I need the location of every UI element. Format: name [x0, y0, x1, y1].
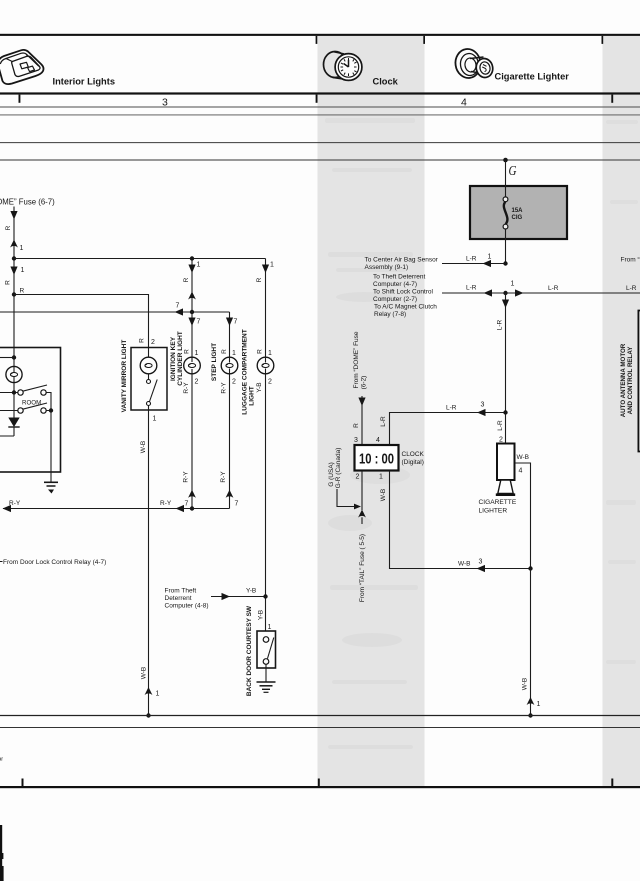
- svg-text:Interior Lights: Interior Lights: [53, 77, 116, 87]
- label BACK DOOR COURTESY SW: [246, 605, 253, 696]
- label VANITY MIRROR LIGHT: [121, 340, 128, 413]
- svg-text:Deterrent: Deterrent: [165, 595, 192, 602]
- svg-text:VANITY MIRROR LIGHT: VANITY MIRROR LIGHT: [121, 340, 128, 413]
- label CIGARETTE LIGHTER: [479, 499, 517, 515]
- svg-text:W-B: W-B: [380, 489, 387, 502]
- svg-text:G: G: [509, 164, 517, 179]
- svg-text:7: 7: [197, 319, 201, 326]
- wire ignition light: [191, 259, 193, 358]
- bus wire y107: [0, 106, 640, 108]
- svg-text:1: 1: [270, 262, 274, 269]
- svg-text:1: 1: [21, 267, 25, 274]
- pin labels R 1: [221, 349, 236, 357]
- junction: [12, 256, 16, 260]
- tiny cut label: [0, 757, 3, 763]
- bus wire G y160: [0, 159, 640, 161]
- svg-text:L-R: L-R: [497, 319, 504, 330]
- label Interior Lights: [53, 77, 116, 87]
- label Cigarette Lighter: [495, 72, 570, 82]
- clock box: [355, 445, 399, 471]
- junction: [190, 506, 194, 510]
- clock icon: [324, 52, 362, 81]
- svg-text:LUGGAGE COMPARTMENT: LUGGAGE COMPARTMENT: [242, 329, 249, 414]
- label DOME fuse: [0, 198, 55, 207]
- connector 7: [185, 490, 196, 508]
- svg-text:Computer (4-8): Computer (4-8): [165, 603, 209, 610]
- arrow down 1: [188, 262, 200, 274]
- svg-text:From Door Lock Control Relay (: From Door Lock Control Relay (4-7): [3, 559, 106, 566]
- label R: [20, 288, 25, 295]
- svg-text:(6-2): (6-2): [361, 376, 368, 390]
- svg-text:“DOME” Fuse (6-7): “DOME” Fuse (6-7): [0, 198, 55, 207]
- label IGNITION KEY CYLINDER LIGHT: [170, 331, 184, 386]
- svg-text:G-R (Canada): G-R (Canada): [335, 448, 342, 489]
- junction: [190, 310, 194, 314]
- label R-Y: [183, 471, 190, 483]
- svg-text:To Shift Lock Control: To Shift Lock Control: [373, 289, 434, 296]
- svg-text:R-Y: R-Y: [183, 471, 190, 483]
- section number 3: [162, 97, 168, 109]
- svg-text:Computer (4-7): Computer (4-7): [373, 281, 417, 288]
- svg-text:1: 1: [153, 416, 157, 423]
- svg-text:1: 1: [232, 350, 236, 357]
- ignition key bulb: [184, 357, 201, 374]
- wire R from DOME fuse: [13, 207, 15, 348]
- svg-text:1: 1: [379, 474, 383, 481]
- svg-text:To Center Air Bag Sensor: To Center Air Bag Sensor: [365, 257, 439, 264]
- luggage bulb: [257, 357, 274, 374]
- label From Theft Deterrent Computer: [165, 588, 209, 610]
- svg-text:CLOCK: CLOCK: [402, 451, 425, 458]
- label W-B connector 1 to bottom bus: [141, 667, 160, 718]
- label To Center Air Bag Sensor: [365, 257, 439, 272]
- svg-text:Cigarette Lighter: Cigarette Lighter: [495, 72, 570, 82]
- svg-text:From Theft: From Theft: [165, 588, 197, 595]
- vanity bulb: [140, 348, 157, 380]
- label From Door Lock Control Relay: [0, 559, 106, 566]
- svg-text:R-Y: R-Y: [221, 382, 228, 394]
- svg-text:1: 1: [197, 262, 201, 269]
- wire clock pin 1 W-B: [380, 471, 531, 572]
- svg-text:7: 7: [235, 501, 239, 508]
- wire L-R to right page: [506, 281, 640, 297]
- svg-text:CIG: CIG: [512, 215, 523, 221]
- svg-text:1: 1: [268, 624, 272, 631]
- diode: [0, 418, 20, 437]
- label From TAIL Fuse: [359, 534, 366, 602]
- arrow down 1: [262, 262, 274, 274]
- label To Theft Deterrent etc: [373, 274, 437, 319]
- arrow left 7: [175, 303, 184, 316]
- svg-text:R: R: [256, 277, 263, 282]
- step light bulb: [221, 357, 238, 374]
- wire from theft deterrent: [211, 588, 268, 601]
- svg-text:1: 1: [156, 691, 160, 698]
- label AUTO ANTENNA MOTOR AND CONTROL RELAY: [620, 343, 634, 417]
- pin labels R 2: [139, 338, 156, 346]
- junction: [12, 292, 16, 296]
- label R: [5, 280, 12, 285]
- pin 1 and W-B wire down: [140, 406, 157, 716]
- fuse box 15A CIG: [470, 186, 567, 239]
- wire L-R down to lighter: [497, 293, 510, 444]
- connector 7: [226, 490, 239, 508]
- left grey fold stripe: [318, 35, 425, 787]
- svg-text:W-B: W-B: [140, 441, 147, 454]
- svg-text:2: 2: [268, 379, 272, 386]
- svg-text:R: R: [5, 280, 12, 285]
- label R: [5, 225, 12, 230]
- svg-text:Clock: Clock: [373, 77, 399, 87]
- wire down to R-Y bus: [191, 374, 193, 509]
- label STEP LIGHT: [211, 343, 218, 381]
- switch common wire: [46, 393, 53, 473]
- svg-text:L-R: L-R: [497, 420, 504, 431]
- svg-text:L-R: L-R: [380, 416, 387, 427]
- label G: [509, 164, 517, 179]
- svg-text:STEP LIGHT: STEP LIGHT: [211, 343, 218, 381]
- svg-text:R-Y: R-Y: [9, 500, 21, 507]
- svg-text:R: R: [183, 277, 190, 282]
- svg-text:Assembly (9-1): Assembly (9-1): [365, 264, 409, 271]
- wire W-B to bottom bus: [522, 569, 541, 718]
- label CLOCK (Digital): [402, 451, 425, 466]
- arrow down: [10, 211, 17, 220]
- label R-Y: [220, 471, 227, 483]
- svg-text:1: 1: [537, 701, 541, 708]
- top border bar: [0, 34, 640, 44]
- junction W-B: [528, 566, 532, 570]
- label From (right page): [621, 257, 640, 264]
- wire step light: [229, 312, 231, 509]
- svg-text:1: 1: [488, 254, 492, 261]
- wire R to clock pin 3: [353, 396, 366, 445]
- svg-text:3: 3: [479, 559, 483, 566]
- right grey fold stripe: [603, 35, 640, 787]
- back door courtesy switch box: [257, 631, 276, 668]
- wire to air bag sensor: [442, 254, 508, 268]
- wire luggage light: [265, 259, 267, 632]
- svg-text:L-R: L-R: [466, 285, 477, 292]
- svg-text:R: R: [353, 423, 360, 428]
- wire clock pin 2: [358, 471, 366, 524]
- room light box: [0, 348, 61, 473]
- ground back door: [257, 664, 276, 692]
- node stub y392: [0, 390, 18, 394]
- section number 4: [461, 97, 467, 109]
- svg-text:R: R: [221, 349, 228, 354]
- svg-text:W-B: W-B: [522, 678, 529, 691]
- svg-text:1: 1: [511, 281, 515, 288]
- svg-text:Y-B: Y-B: [256, 382, 263, 392]
- bottom bus wire 1: [0, 715, 640, 717]
- arrow left end: [3, 500, 21, 512]
- interior dome light icon: [0, 50, 43, 84]
- svg-text:4: 4: [519, 468, 523, 475]
- room switch upper: [18, 385, 47, 395]
- label LUGGAGE COMPARTMENT LIGHT: [242, 329, 256, 414]
- svg-text:L-R: L-R: [446, 405, 457, 412]
- svg-text:3: 3: [481, 402, 485, 409]
- svg-text:R: R: [139, 338, 146, 343]
- arrow down 1: [10, 267, 24, 276]
- svg-text:R-Y: R-Y: [183, 382, 190, 394]
- svg-text:1: 1: [20, 245, 24, 252]
- svg-text:10 : 00: 10 : 00: [359, 451, 394, 468]
- bottom ruler: [0, 779, 640, 789]
- svg-text:R: R: [257, 349, 264, 354]
- wire L-R to clock pin 4: [376, 402, 506, 446]
- label Clock: [373, 77, 399, 87]
- label 15A CIG: [512, 208, 524, 221]
- svg-text:AND CONTROL RELAY: AND CONTROL RELAY: [627, 346, 634, 415]
- svg-text:Y-B: Y-B: [258, 610, 265, 620]
- svg-text:2: 2: [232, 379, 236, 386]
- svg-text:R: R: [5, 225, 12, 230]
- label L-R right edge: [626, 285, 637, 292]
- wire through room bulb: [13, 348, 15, 418]
- section ruler band: [0, 92, 640, 102]
- svg-text:(Digital): (Digital): [402, 459, 424, 466]
- svg-text:To A/C Magnet Clutch: To A/C Magnet Clutch: [374, 304, 437, 311]
- label Y-B pin 1: [258, 610, 272, 631]
- node stub y357: [0, 355, 16, 359]
- room bulb: [6, 366, 22, 382]
- svg-text:From “TAIL” Fuse ( 5-5): From “TAIL” Fuse ( 5-5): [359, 534, 366, 602]
- svg-text:AUTO ANTENNA MOTOR: AUTO ANTENNA MOTOR: [620, 343, 627, 417]
- wire R to vanity mirror light: [14, 295, 149, 348]
- label R-Y arrow left: [160, 500, 184, 512]
- wire G USA joining: [328, 448, 361, 510]
- pin labels W-B 4: [515, 454, 531, 569]
- svg-text:R: R: [20, 288, 25, 295]
- svg-text:L-R: L-R: [626, 285, 637, 292]
- connector 1: [10, 240, 23, 253]
- bus wire y115.5: [0, 114, 640, 116]
- svg-text:lar: lar: [0, 757, 3, 763]
- cigarette lighter icon: [454, 47, 495, 79]
- pin labels 2 Y-B: [256, 379, 272, 393]
- vanity mirror light box: [131, 348, 167, 411]
- bottom bus wire 2: [0, 727, 640, 729]
- svg-text:CYLINDER LIGHT: CYLINDER LIGHT: [177, 331, 184, 386]
- faint bleed-through texture right stripe: [606, 120, 638, 664]
- svg-text:R: R: [184, 349, 191, 354]
- connector: [188, 292, 196, 300]
- svg-text:From “: From “: [621, 257, 640, 264]
- svg-text:From “DOME” Fuse: From “DOME” Fuse: [353, 331, 360, 388]
- vanity switch: [147, 380, 158, 406]
- clock pins 2 1: [356, 474, 384, 481]
- svg-text:Computer (2-7): Computer (2-7): [373, 296, 417, 303]
- svg-text:W-B: W-B: [141, 667, 148, 680]
- wire bus y258: [14, 258, 266, 260]
- svg-text:7: 7: [234, 319, 238, 326]
- junction G node: [503, 158, 508, 163]
- svg-text:G (USA): G (USA): [328, 462, 335, 487]
- svg-text:7: 7: [185, 501, 189, 508]
- svg-text:BACK DOOR COURTESY SW: BACK DOOR COURTESY SW: [246, 605, 253, 696]
- pin labels 2 R-Y: [183, 379, 199, 394]
- svg-text:1: 1: [268, 350, 272, 357]
- fuse element: [503, 160, 508, 264]
- label From DOME Fuse (6-2): [353, 331, 368, 389]
- svg-text:R-Y: R-Y: [220, 471, 227, 483]
- junction ignition wire: [190, 256, 194, 260]
- svg-text:1: 1: [195, 350, 199, 357]
- svg-text:IGNITION KEY: IGNITION KEY: [170, 336, 177, 381]
- svg-text:W-B: W-B: [458, 561, 471, 568]
- svg-text:W-B: W-B: [517, 454, 530, 461]
- arrow down 7: [188, 318, 200, 327]
- label ROOM: [22, 400, 41, 407]
- pin labels R 1: [257, 349, 273, 357]
- ground room: [44, 472, 58, 494]
- pin labels 2 R-Y: [221, 379, 237, 394]
- page corner mark: [0, 825, 4, 881]
- label R: [256, 277, 263, 282]
- svg-text:2: 2: [195, 379, 199, 386]
- svg-text:L-R: L-R: [548, 285, 559, 292]
- svg-text:R-Y: R-Y: [160, 500, 172, 507]
- arrow down 7: [226, 318, 238, 327]
- wire to computers: [442, 285, 508, 297]
- room switch lower: [0, 403, 47, 413]
- label R: [183, 277, 190, 282]
- faint bleed-through texture left stripe: [325, 118, 418, 749]
- svg-text:L-R: L-R: [466, 256, 477, 263]
- cigarette lighter element: [496, 444, 515, 495]
- svg-text:CIGARETTE: CIGARETTE: [479, 499, 517, 506]
- svg-text:LIGHT: LIGHT: [249, 386, 256, 406]
- svg-text:4: 4: [376, 437, 380, 444]
- svg-text:3: 3: [354, 437, 358, 444]
- pin labels R 1: [184, 349, 199, 357]
- svg-text:2: 2: [499, 437, 503, 444]
- svg-text:15A: 15A: [512, 208, 524, 214]
- svg-text:To Theft Deterrent: To Theft Deterrent: [373, 274, 425, 281]
- svg-text:Relay (7-8): Relay (7-8): [374, 311, 406, 318]
- wire bus y312: [0, 311, 230, 313]
- svg-text:2: 2: [356, 474, 360, 481]
- svg-text:7: 7: [176, 303, 180, 310]
- svg-text:Y-B: Y-B: [246, 588, 256, 595]
- svg-text:LIGHTER: LIGHTER: [479, 508, 508, 515]
- R-Y bus wire: [3, 508, 230, 510]
- svg-text:2: 2: [151, 339, 155, 346]
- auto antenna relay box edge: [638, 311, 640, 452]
- bus wire y142.5: [0, 142, 640, 144]
